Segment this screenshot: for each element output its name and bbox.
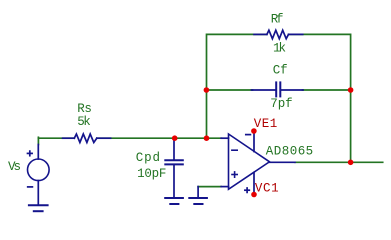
svg-text:7pf: 7pf [270, 97, 293, 111]
svg-text:1k: 1k [273, 42, 286, 56]
svg-text:VC1: VC1 [255, 181, 279, 195]
svg-text:VE1: VE1 [254, 117, 278, 131]
svg-text:10pF: 10pF [137, 167, 166, 181]
svg-text:AD8065: AD8065 [266, 145, 314, 159]
svg-text:Vs: Vs [8, 160, 21, 174]
svg-text:5k: 5k [77, 115, 91, 129]
svg-text:Rf: Rf [271, 12, 284, 26]
svg-text:Cpd: Cpd [136, 151, 160, 165]
svg-text:Rs: Rs [77, 102, 92, 116]
svg-text:Cf: Cf [273, 64, 288, 78]
